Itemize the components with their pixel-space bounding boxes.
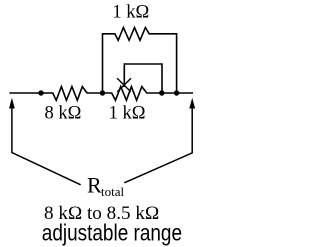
node: junction dot left terminal of R2 (38, 90, 43, 95)
svg-text:R: R (87, 172, 102, 197)
wire: wiper connection loop of potentiometer R3 (124, 64, 162, 93)
arrowhead of left measurement arrow (9, 98, 15, 109)
svg-text:1 kΩ: 1 kΩ (112, 2, 149, 22)
wire: left measurement arrow shaft and diagonal to R_total (12, 108, 80, 185)
node: junction dot at wiper return (159, 90, 164, 95)
wire: right measurement arrow shaft and diagonal to R_total (125, 108, 192, 183)
node: junction dot at R1 left branch (100, 90, 105, 95)
resistor R1 1 kOhm: upper parallel branch with zigzag body (103, 28, 177, 94)
svg-text:8 kΩ: 8 kΩ (45, 104, 82, 124)
svg-text:total: total (101, 184, 124, 199)
wiper arrow X of potentiometer R3 (118, 79, 131, 91)
node: junction dot at R1 right branch (174, 90, 179, 95)
svg-text:1 kΩ: 1 kΩ (109, 104, 146, 124)
wire: main horizontal rail with resistor R2 and potentiometer R3 bodies (10, 87, 192, 101)
svg-text:adjustable range: adjustable range (42, 220, 182, 246)
arrowhead of right measurement arrow (189, 98, 195, 109)
